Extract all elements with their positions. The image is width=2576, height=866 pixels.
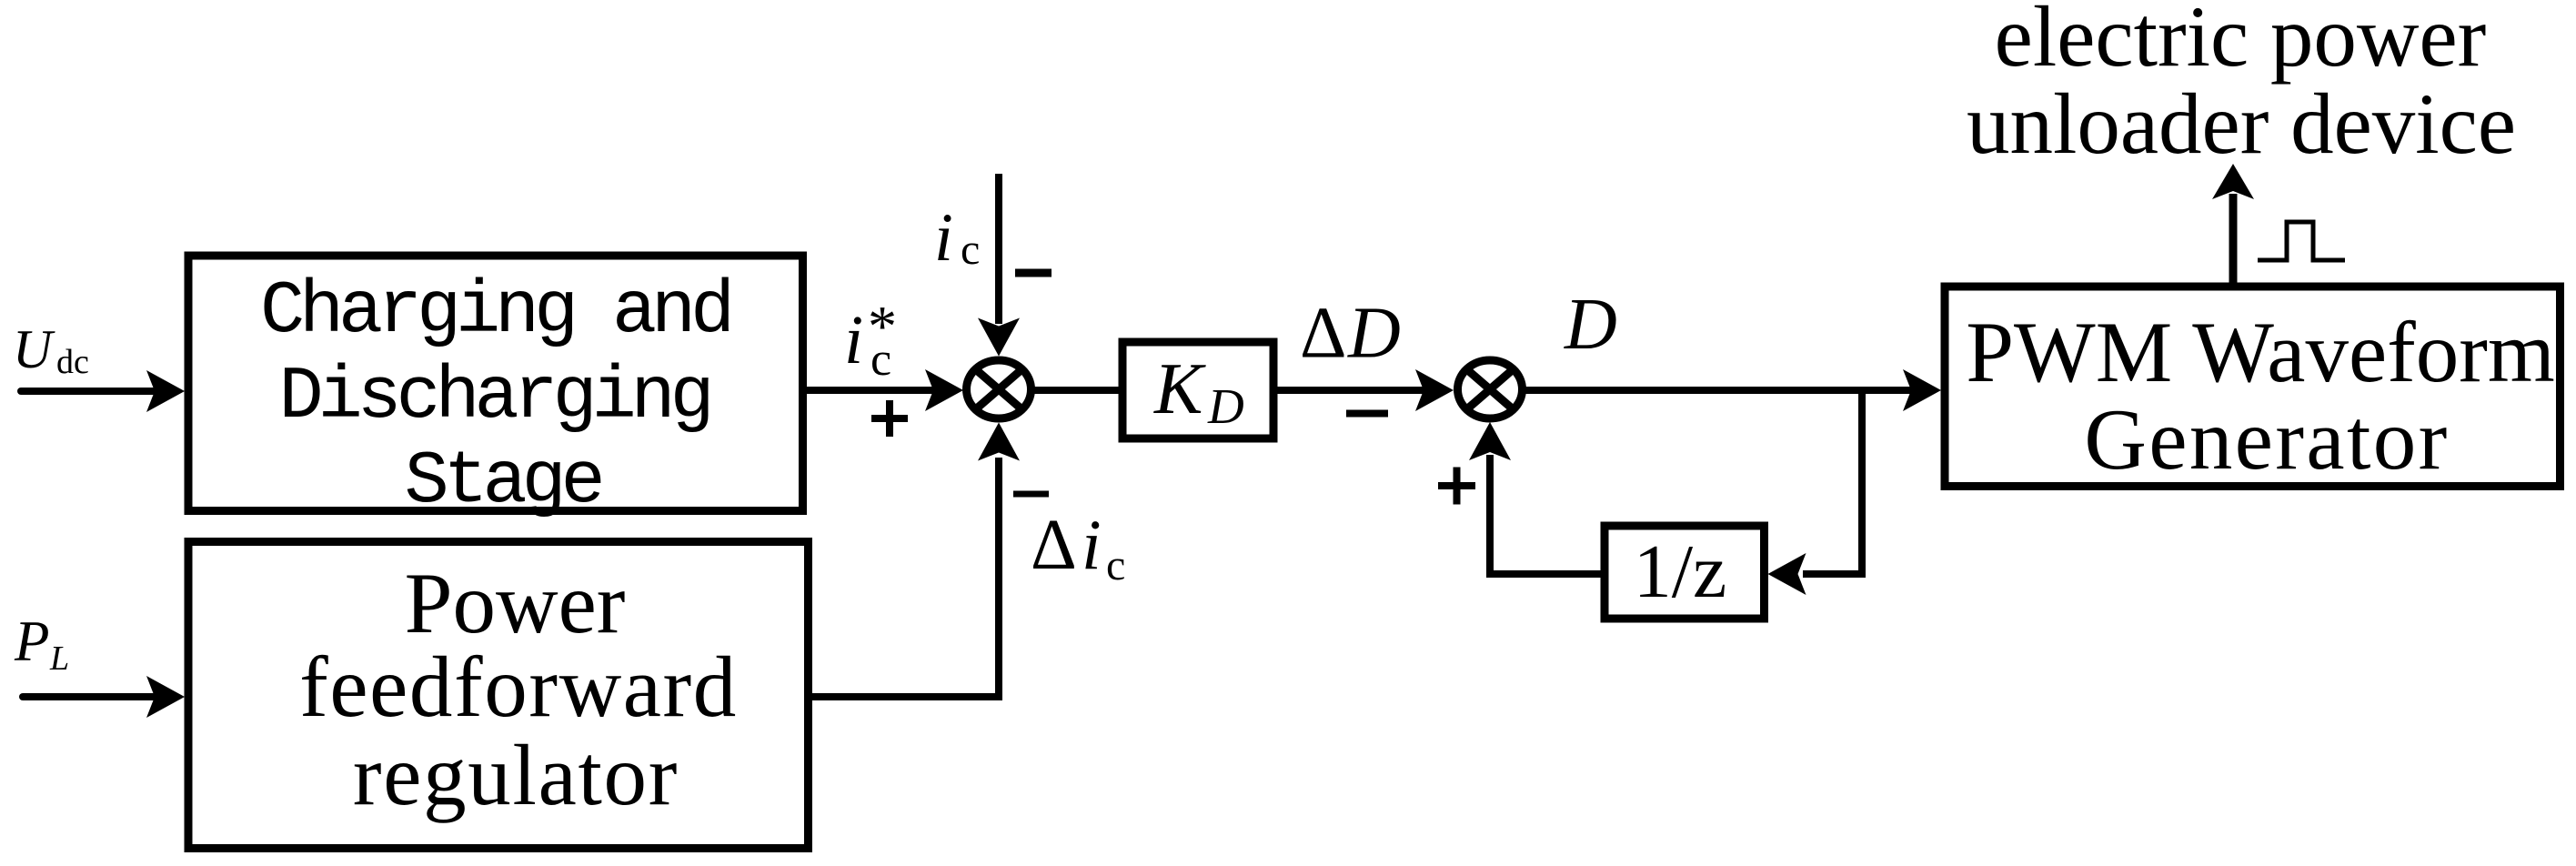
- wire ic vertical input: [995, 174, 1002, 324]
- svg-text:c: c: [961, 226, 980, 274]
- arrowhead Udc into Charging box: [146, 370, 185, 412]
- minus sign for feedforward input: [1013, 491, 1049, 498]
- plus sign at junction 2 bottom input: [1438, 482, 1475, 489]
- pulse waveform symbol: [2258, 222, 2345, 260]
- svg-text:Power: Power: [405, 555, 626, 651]
- svg-text:D: D: [1564, 285, 1617, 365]
- svg-text:c: c: [1106, 541, 1125, 589]
- minus sign for ic input: [1015, 269, 1052, 277]
- wire PWM output up: [2229, 194, 2238, 283]
- svg-text:Δ: Δ: [1300, 294, 1346, 374]
- wire 1/z to junction 2 vertical: [1490, 455, 1605, 574]
- arrowhead into summing junction 2: [1415, 369, 1454, 411]
- wire feedback branch down: [1803, 387, 1862, 574]
- wire PL input: [23, 693, 153, 700]
- arrowhead up to electric power unloader device: [2212, 164, 2254, 199]
- svg-text:Δ: Δ: [1031, 506, 1077, 585]
- svg-text:i: i: [1082, 505, 1102, 584]
- block KD: [1122, 342, 1273, 438]
- svg-text:unloader device: unloader device: [1967, 76, 2516, 172]
- summing junction 1: [967, 360, 1031, 418]
- arrowhead up into junction 2: [1469, 422, 1511, 460]
- svg-text:P: P: [14, 609, 49, 673]
- arrowhead into PWM block: [1903, 369, 1941, 411]
- wire junction 2 to PWM block: [1525, 387, 1911, 394]
- svg-text:D: D: [1347, 294, 1401, 374]
- svg-text:c: c: [870, 334, 891, 386]
- arrowhead ic down into junction 1: [978, 318, 1020, 357]
- svg-text:L: L: [49, 639, 69, 678]
- svg-text:PWM Waveform: PWM Waveform: [1966, 304, 2555, 400]
- svg-text:Discharging: Discharging: [278, 355, 709, 439]
- arrowhead into 1/z right side: [1768, 553, 1806, 595]
- wire Udc input: [21, 388, 153, 395]
- block Charging and Discharging Stage: [188, 256, 803, 511]
- wire KD to summing junction 2: [1273, 387, 1424, 394]
- block 1/z: [1605, 526, 1765, 619]
- wire junction 1 to KD block: [1034, 387, 1122, 394]
- wire ic* from Charging box to summing junction 1: [803, 387, 933, 394]
- svg-text:U: U: [13, 319, 55, 379]
- block PWM Waveform Generator: [1945, 287, 2561, 487]
- svg-text:i: i: [934, 200, 953, 276]
- minus sign before junction 2: [1346, 410, 1388, 418]
- svg-text:1/z: 1/z: [1634, 529, 1727, 614]
- svg-text:i: i: [844, 302, 863, 378]
- svg-text:electric power: electric power: [1995, 0, 2487, 85]
- arrowhead PL into Power feedforward box: [146, 676, 185, 718]
- svg-text:dc: dc: [56, 343, 89, 381]
- plus sign at junction 1 left input: [871, 415, 908, 422]
- summing junction 2: [1458, 360, 1523, 418]
- svg-text:K: K: [1153, 349, 1206, 429]
- arrowhead into summing junction 1: [925, 369, 963, 411]
- svg-text:D: D: [1207, 378, 1244, 434]
- arrowhead up into junction 1 bottom: [978, 423, 1020, 461]
- svg-text:Stage: Stage: [404, 439, 600, 524]
- svg-text:feedforward: feedforward: [299, 639, 738, 735]
- wire feedforward output to junction 1: [808, 458, 999, 697]
- svg-text:Generator: Generator: [2084, 391, 2449, 488]
- svg-text:regulator: regulator: [353, 727, 679, 823]
- block Power feedforward regulator: [188, 542, 809, 849]
- svg-text:Charging and: Charging and: [260, 269, 730, 354]
